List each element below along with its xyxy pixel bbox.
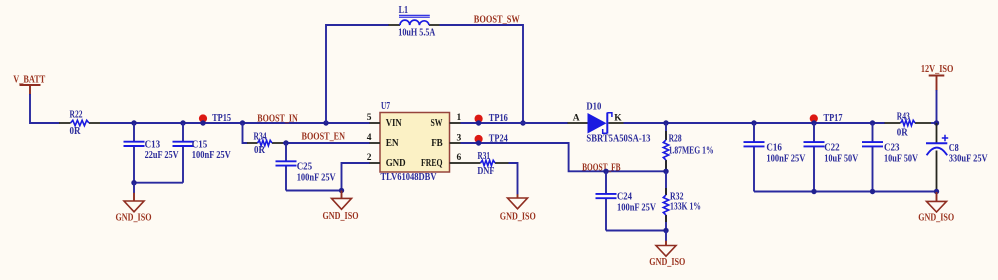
junction C8 ground — [934, 189, 939, 194]
svg-text:3: 3 — [457, 133, 462, 143]
inductor L1 10uH 5.5A — [389, 5, 440, 39]
svg-text:K: K — [614, 114, 622, 124]
svg-text:2: 2 — [367, 153, 372, 163]
wire L1 to SW rail — [440, 25, 524, 123]
svg-text:V_BATT: V_BATT — [13, 75, 45, 86]
svg-text:C8: C8 — [949, 143, 959, 154]
svg-text:BOOST_SW: BOOST_SW — [474, 14, 520, 25]
capacitor C22 10uF 50V — [804, 123, 859, 192]
junction C24 tap — [603, 169, 608, 174]
svg-text:R28: R28 — [669, 134, 682, 145]
junction BOOST_SW drop — [520, 120, 525, 125]
test point TP17 — [810, 113, 843, 124]
power port V_BATT — [13, 75, 45, 95]
svg-text:BOOST_IN: BOOST_IN — [257, 113, 298, 124]
wire 12V_ISO to output rail — [936, 90, 938, 123]
svg-text:VIN: VIN — [386, 118, 403, 129]
junction C16 tap — [751, 120, 756, 125]
svg-text:FREQ: FREQ — [421, 158, 443, 169]
svg-text:EN: EN — [386, 138, 400, 149]
junction C23 ground — [870, 189, 875, 194]
wire up to L1 — [326, 25, 389, 123]
svg-text:100nF 25V: 100nF 25V — [617, 203, 657, 214]
resistor R34 0R — [247, 132, 283, 156]
pin 6 FREQ — [421, 153, 462, 169]
svg-text:10uF 50V: 10uF 50V — [884, 153, 919, 164]
svg-text:DNF: DNF — [477, 166, 494, 177]
svg-text:TP24: TP24 — [489, 133, 508, 144]
test point TP16 — [475, 113, 508, 126]
svg-text:C24: C24 — [617, 192, 632, 203]
pin 4 EN — [367, 133, 400, 149]
svg-text:10uF 50V: 10uF 50V — [824, 153, 859, 164]
svg-text:C22: C22 — [824, 143, 840, 154]
capacitor C15 100nF 25V — [173, 123, 232, 183]
svg-text:330uF 25V: 330uF 25V — [949, 153, 989, 164]
junction C13 tap — [131, 120, 136, 125]
svg-text:10uH 5.5A: 10uH 5.5A — [398, 28, 436, 39]
wire U7 SW to diode — [461, 122, 568, 124]
svg-text:133K 1%: 133K 1% — [670, 202, 701, 213]
junction L1 branch — [323, 120, 328, 125]
svg-text:C13: C13 — [145, 140, 161, 151]
junction C23 tap — [870, 120, 875, 125]
power port 12V_ISO — [921, 64, 954, 91]
pin 5 VIN — [367, 113, 403, 129]
capacitor C8 330uF 25V polarized — [926, 123, 988, 192]
wire C24 to R32 ground bus — [606, 230, 666, 232]
junction C22 tap — [811, 120, 816, 125]
wire R31 to ground — [509, 163, 518, 195]
capacitor C23 10uF 50V — [862, 123, 919, 192]
junction C25 tap — [283, 140, 288, 145]
svg-text:C25: C25 — [297, 162, 313, 173]
junction C8 tap — [934, 120, 939, 125]
wire output ground bus — [754, 191, 937, 193]
wire U7 FB to feedback node — [461, 143, 667, 171]
svg-text:TLV61048DBV: TLV61048DBV — [381, 172, 438, 183]
svg-text:R43: R43 — [897, 111, 910, 122]
svg-text:U7: U7 — [381, 101, 390, 112]
svg-text:BOOST_FB: BOOST_FB — [582, 162, 621, 173]
svg-text:R34: R34 — [254, 132, 267, 143]
wire C25 to ground junction — [286, 190, 342, 192]
capacitor C24 100nF 25V — [596, 171, 657, 230]
junction U7 ground — [339, 188, 344, 193]
op-amp U7 TLV61048DBV body — [380, 101, 450, 183]
svg-text:100nF 25V: 100nF 25V — [766, 153, 806, 164]
svg-text:1.87MEG 1%: 1.87MEG 1% — [669, 146, 714, 157]
svg-text:GND_ISO: GND_ISO — [323, 211, 359, 222]
test point TP24 — [475, 133, 508, 145]
test point TP15 — [199, 113, 231, 126]
ground GND_ISO under R31 — [517, 194, 519, 198]
junction C15 tap — [180, 120, 185, 125]
svg-text:12V_ISO: 12V_ISO — [921, 64, 954, 75]
svg-text:1: 1 — [457, 113, 462, 123]
svg-text:D10: D10 — [586, 101, 601, 112]
capacitor C25 100nF 25V — [276, 143, 337, 191]
svg-text:GND_ISO: GND_ISO — [918, 213, 954, 224]
wire diode to output rail — [624, 122, 885, 124]
svg-text:5: 5 — [367, 113, 372, 123]
svg-text:TP17: TP17 — [824, 113, 843, 124]
wire V_BATT to R22 — [30, 94, 60, 123]
wire U7 GND to ground junction — [342, 163, 371, 191]
wire R22 to U7 VIN — [100, 122, 370, 124]
svg-text:SW: SW — [431, 118, 443, 129]
ground GND_ISO under C13 — [116, 183, 152, 224]
wire R34 to U7 EN — [283, 142, 370, 144]
svg-text:4: 4 — [367, 133, 372, 143]
svg-text:GND_ISO: GND_ISO — [116, 212, 152, 223]
svg-text:22uF 25V: 22uF 25V — [145, 150, 180, 161]
junction R28 tap — [663, 120, 668, 125]
resistor R28 1.87MEG 1% — [663, 123, 713, 171]
junction R34 branch — [240, 120, 245, 125]
svg-text:BOOST_EN: BOOST_EN — [302, 132, 346, 143]
svg-text:GND_ISO: GND_ISO — [500, 212, 536, 223]
pin 3 FB — [431, 133, 461, 149]
resistor R31 DNF — [461, 151, 509, 177]
svg-text:C16: C16 — [766, 143, 782, 154]
ground GND_ISO under U7 — [341, 191, 343, 199]
wire C13-C15 ground bus — [134, 182, 183, 184]
svg-text:100nF 25V: 100nF 25V — [192, 150, 232, 161]
resistor R32 133K 1% — [663, 171, 701, 230]
junction R32 ground — [663, 228, 668, 233]
svg-text:R31: R31 — [478, 151, 491, 162]
pin 1 SW — [431, 113, 462, 129]
svg-text:TP16: TP16 — [489, 113, 508, 124]
svg-text:0R: 0R — [254, 145, 266, 156]
junction C13 ground — [131, 180, 136, 185]
svg-text:GND: GND — [386, 158, 406, 169]
svg-text:R22: R22 — [70, 110, 83, 121]
svg-text:100nF 25V: 100nF 25V — [297, 172, 337, 183]
ground GND_ISO under R32 — [649, 231, 685, 269]
svg-text:FB: FB — [431, 138, 443, 149]
svg-text:6: 6 — [457, 153, 462, 163]
capacitor C13 22uF 25V — [124, 123, 180, 183]
capacitor C16 100nF 25V — [744, 123, 807, 192]
svg-text:0R: 0R — [897, 127, 909, 138]
pin 2 GND — [367, 153, 406, 169]
svg-text:TP15: TP15 — [212, 113, 231, 124]
svg-text:L1: L1 — [399, 5, 409, 16]
ground GND_ISO output — [918, 192, 954, 224]
junction R28-R32 feedback — [663, 169, 668, 174]
resistor R22 0R — [59, 110, 100, 138]
svg-text:C15: C15 — [192, 140, 208, 151]
wire BOOST_IN rail down to R34 — [243, 123, 248, 143]
svg-text:SBRT5A50SA-13: SBRT5A50SA-13 — [586, 134, 650, 145]
junction C22 ground — [811, 189, 816, 194]
svg-text:GND_ISO: GND_ISO — [649, 257, 685, 268]
wire R43 to C8 — [931, 122, 937, 124]
svg-text:A: A — [573, 114, 580, 124]
svg-text:0R: 0R — [70, 126, 82, 137]
svg-text:C23: C23 — [884, 143, 900, 154]
diode D10 SBRT5A50SA-13 — [568, 101, 651, 144]
resistor R43 0R — [885, 111, 932, 138]
